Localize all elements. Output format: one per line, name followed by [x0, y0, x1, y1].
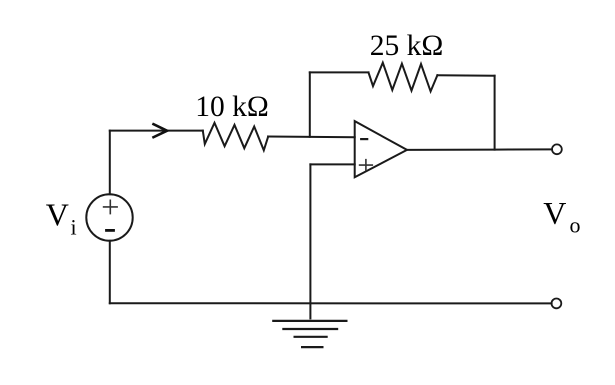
- wire feedback right vertical: [494, 76, 496, 150]
- wire input horizontal to resistor: [110, 130, 203, 132]
- node junction feedback/minus: [309, 72, 311, 136]
- resistor R2 25 kOhm: [369, 63, 438, 92]
- svg-text:25 kΩ: 25 kΩ: [370, 30, 444, 62]
- resistor R1 10 kOhm: [203, 123, 268, 151]
- output terminal top: [552, 144, 562, 154]
- ground: [273, 321, 346, 347]
- op-amp U1: [355, 121, 407, 177]
- svg-text:o: o: [570, 212, 581, 237]
- svg-text:10 kΩ: 10 kΩ: [195, 91, 269, 123]
- wire op-amp plus input: [310, 163, 354, 165]
- label 25 kOhm: [370, 30, 444, 62]
- svg-text:V: V: [46, 197, 69, 233]
- label Vi: [46, 197, 77, 240]
- wire ground vertical: [309, 164, 311, 318]
- wire bottom horizontal: [110, 302, 552, 304]
- wire op-amp output: [407, 148, 552, 151]
- label Vo: [543, 195, 580, 238]
- wire Vi bottom: [109, 241, 111, 303]
- wire feedback top right: [437, 74, 494, 77]
- wire feedback top left: [310, 71, 369, 73]
- label 10 kOhm: [195, 91, 269, 123]
- svg-text:V: V: [543, 195, 566, 231]
- svg-text:i: i: [71, 215, 77, 240]
- output terminal bottom: [552, 299, 562, 309]
- wire resistor to op-amp minus input: [268, 136, 355, 139]
- voltage source Vi: [86, 194, 132, 240]
- arrow current direction: [154, 124, 168, 137]
- wire Vi top to input corner: [109, 131, 111, 195]
